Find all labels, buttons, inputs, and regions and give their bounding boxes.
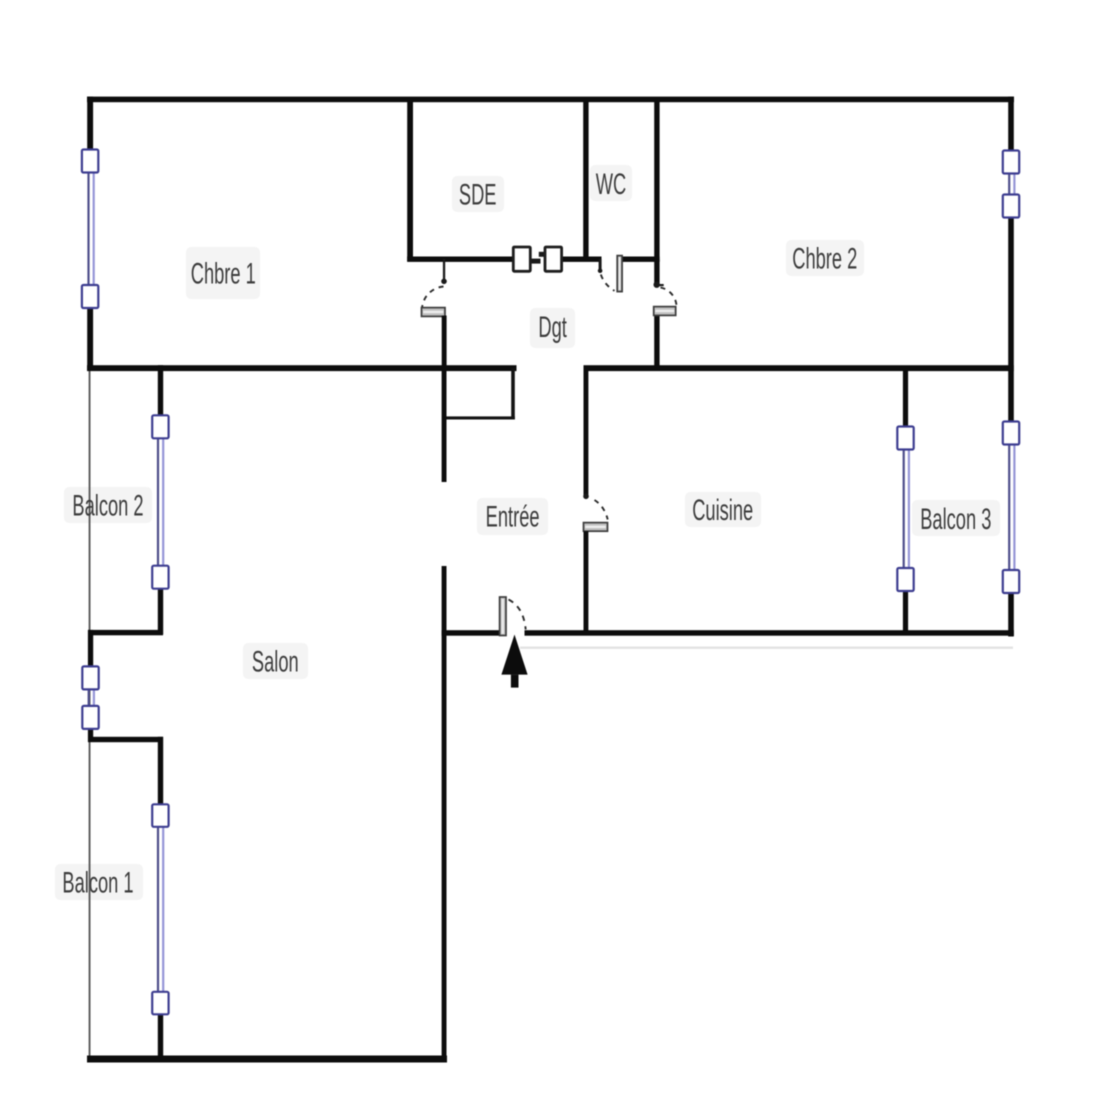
label: Balcon 1 xyxy=(62,867,133,900)
wall: WC right / Chbre 2 left upper (x=657) xyxy=(654,99,659,262)
label: Chbre 2 xyxy=(792,243,857,276)
window: Chbre 1 left wall xyxy=(82,150,98,309)
svg-text:WC: WC xyxy=(596,169,626,202)
faint scan shadow line below kitchen wall xyxy=(520,647,1013,649)
label halos xyxy=(55,165,1000,900)
wall: Cuisine left upper (x=586) xyxy=(584,368,589,497)
wall: left exterior between balconies (x=90.5) xyxy=(88,630,93,742)
wall: Chbre 1 right below door (x=444) xyxy=(442,316,447,369)
svg-text:Cuisine: Cuisine xyxy=(692,495,753,528)
wall: Salon right lower (x=444) xyxy=(442,566,447,1061)
label: Balcon 2 xyxy=(72,490,143,523)
wall: Salon left step lower (y=739.5, x 89-163) xyxy=(88,737,163,742)
wall: Cuisine left lower (x=586) xyxy=(584,531,589,634)
wall: Balcon 2 right (x=160.5) xyxy=(158,365,163,634)
label: Cuisine xyxy=(692,495,753,528)
wall: SDE left (x=410) xyxy=(407,99,413,262)
svg-text:Balcon 3: Balcon 3 xyxy=(920,504,991,537)
label: SDE xyxy=(459,179,497,212)
svg-text:SDE: SDE xyxy=(459,179,497,212)
window: between Balcon 2 and Balcon 1 (x=90.5) xyxy=(82,666,98,729)
door: Chbre 1 xyxy=(422,279,447,317)
arrow: entrance direction xyxy=(501,635,527,688)
label: Balcon 3 xyxy=(920,504,991,537)
wall: Chbre 1 right / stub above door (x=444) xyxy=(443,259,445,280)
window: Balcon 3 left wall xyxy=(897,427,913,592)
wall: Chbre 2 left lower (x=657, door segment) xyxy=(654,259,659,368)
label: Salon xyxy=(252,646,299,679)
svg-text:Chbre 2: Chbre 2 xyxy=(792,243,857,276)
sliding door: SDE bottom wall xyxy=(513,247,561,271)
wall: WC left (x=586) xyxy=(583,99,588,262)
label: Chbre 1 xyxy=(191,258,256,291)
wall: right exterior (x=1011) xyxy=(1008,97,1014,637)
window: Chbre 2 right wall (short) xyxy=(1003,151,1019,218)
wall: entrance / Cuisine bottom (y=633) xyxy=(442,630,1014,636)
window: Balcon 2 xyxy=(152,415,168,588)
label: Dgt xyxy=(538,312,567,345)
label: Entree xyxy=(486,501,540,534)
svg-text:Salon: Salon xyxy=(252,646,299,679)
wall: bottom exterior (y=1059) xyxy=(87,1056,447,1063)
wall: middle horizontal left part (y=368, Chbre1 bottom) xyxy=(87,365,517,371)
svg-text:Entrée: Entrée xyxy=(486,501,540,534)
svg-text:Balcon 2: Balcon 2 xyxy=(72,490,143,523)
svg-text:Balcon 1: Balcon 1 xyxy=(62,867,133,900)
balcony outer thin line (left, x=89.5) xyxy=(89,368,91,1059)
wall: Balcon 3 left (x=905.5) xyxy=(903,368,908,634)
closet: Entree top-left recess xyxy=(444,368,515,420)
label: WC xyxy=(596,169,626,202)
door: main entrance (leaf + dashed swing) xyxy=(500,597,526,636)
svg-text:Dgt: Dgt xyxy=(538,312,567,345)
wall: top exterior (y=99) xyxy=(87,97,1014,103)
wall: Balcon 1 right (x=160.5) xyxy=(158,737,163,1061)
window: Balcon 1 xyxy=(152,804,168,1014)
door: Chbre 2 xyxy=(654,282,677,316)
wall: middle horizontal right part (y=368, Chbre2 bottom / Cuisine top) xyxy=(584,365,1014,371)
svg-text:Chbre 1: Chbre 1 xyxy=(191,258,256,291)
wall: left exterior upper (Chbre 1, x=90) xyxy=(87,97,93,371)
door: Cuisine xyxy=(583,494,608,532)
window: Balcon 3 right outer wall xyxy=(1003,422,1019,594)
wall: Salon left step upper (y=632.5, x 89-163) xyxy=(88,630,163,635)
door: WC (leaf + dashed swing) xyxy=(598,256,622,292)
wall: Entree left / Salon right upper (x=444) xyxy=(442,370,447,482)
wall: SDE + WC bottom (y=259) xyxy=(407,257,659,262)
